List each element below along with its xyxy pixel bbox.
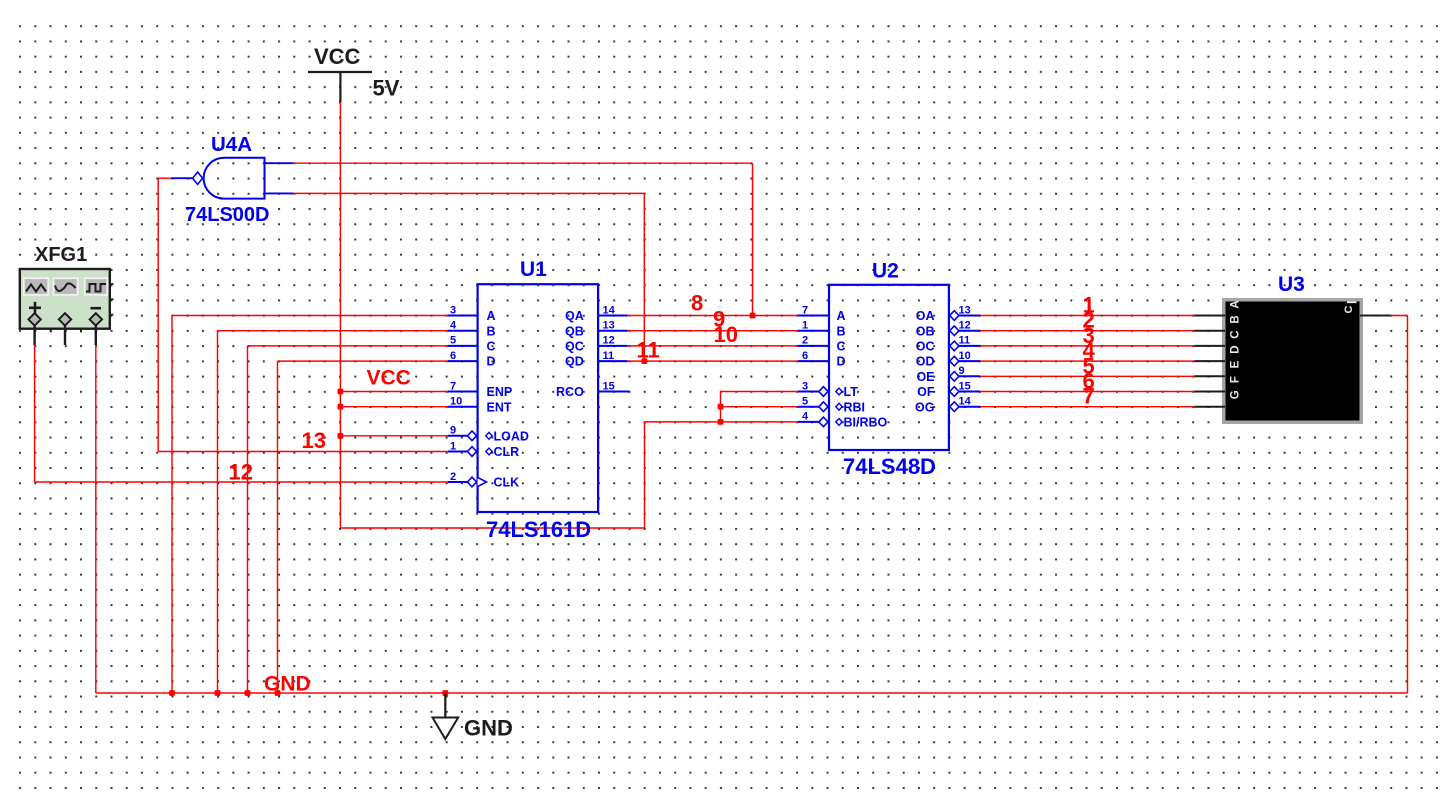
svg-text:14: 14 [603, 304, 616, 316]
svg-text:3: 3 [802, 380, 808, 392]
svg-text:2: 2 [450, 471, 456, 483]
svg-text:OD: OD [916, 355, 935, 369]
svg-text:13: 13 [959, 304, 971, 316]
svg-text:1: 1 [802, 320, 808, 332]
svg-text:11: 11 [603, 350, 615, 362]
svg-text:VCC: VCC [367, 367, 411, 390]
svg-text:ENP: ENP [487, 385, 513, 399]
svg-text:12: 12 [229, 459, 253, 484]
svg-text:CLK: CLK [494, 476, 520, 490]
svg-text:8: 8 [691, 291, 703, 316]
svg-text:15: 15 [603, 380, 615, 392]
svg-text:B: B [837, 324, 846, 338]
svg-text:XFG1: XFG1 [35, 244, 87, 266]
svg-text:QA: QA [565, 309, 584, 323]
svg-text:13: 13 [302, 428, 326, 453]
svg-text:4: 4 [802, 411, 809, 423]
svg-text:D: D [1230, 345, 1242, 353]
svg-text:U3: U3 [1278, 273, 1305, 296]
svg-text:OC: OC [916, 340, 935, 354]
svg-text:10: 10 [450, 396, 462, 408]
svg-text:12: 12 [959, 320, 971, 332]
svg-text:GND: GND [464, 716, 513, 741]
svg-text:74LS48D: 74LS48D [843, 454, 936, 479]
svg-text:6: 6 [802, 350, 808, 362]
svg-text:74LS00D: 74LS00D [185, 204, 270, 226]
svg-text:5V: 5V [373, 76, 400, 101]
svg-text:14: 14 [959, 396, 972, 408]
svg-text:QB: QB [565, 324, 584, 338]
svg-text:11: 11 [637, 337, 660, 362]
svg-text:10: 10 [714, 322, 738, 347]
svg-text:1: 1 [450, 440, 456, 452]
svg-text:15: 15 [959, 380, 971, 392]
svg-text:U1: U1 [520, 258, 547, 281]
svg-text:C: C [837, 340, 846, 354]
svg-text:5: 5 [802, 396, 808, 408]
svg-text:10: 10 [959, 350, 971, 362]
svg-text:U4A: U4A [211, 133, 252, 156]
svg-text:11: 11 [959, 335, 971, 347]
svg-text:OF: OF [917, 385, 935, 399]
svg-text:6: 6 [450, 350, 456, 362]
svg-text:OB: OB [916, 324, 935, 338]
svg-text:7: 7 [802, 304, 808, 316]
svg-text:2: 2 [802, 335, 808, 347]
svg-text:RCO: RCO [556, 385, 584, 399]
svg-text:OG: OG [915, 400, 934, 414]
svg-text:E: E [1230, 360, 1242, 368]
svg-text:G: G [1230, 390, 1242, 399]
svg-text:VCC: VCC [314, 44, 361, 69]
svg-text:LOAD: LOAD [494, 429, 529, 443]
svg-text:U2: U2 [872, 260, 899, 283]
svg-text:12: 12 [603, 335, 615, 347]
svg-text:9: 9 [450, 425, 456, 437]
svg-text:4: 4 [450, 320, 457, 332]
svg-text:3: 3 [450, 304, 456, 316]
svg-text:9: 9 [959, 365, 965, 377]
svg-text:7: 7 [450, 380, 456, 392]
svg-text:C: C [487, 340, 496, 354]
svg-text:GND: GND [264, 673, 311, 696]
svg-text:OA: OA [916, 309, 935, 323]
svg-text:RBI: RBI [844, 400, 866, 414]
svg-text:CLR: CLR [494, 445, 520, 459]
svg-text:OE: OE [916, 370, 934, 384]
svg-text:LT: LT [844, 385, 859, 399]
svg-text:74LS161D: 74LS161D [486, 517, 591, 542]
svg-text:D: D [837, 355, 846, 369]
svg-text:BI/RBO: BI/RBO [844, 416, 888, 430]
svg-text:QD: QD [565, 355, 584, 369]
svg-text:C: C [1343, 305, 1355, 313]
svg-text:B: B [1230, 315, 1242, 323]
svg-text:A: A [837, 309, 846, 323]
svg-text:7: 7 [1083, 384, 1095, 409]
svg-text:F: F [1230, 376, 1242, 383]
svg-text:D: D [487, 355, 496, 369]
svg-text:QC: QC [565, 340, 584, 354]
svg-text:ENT: ENT [487, 400, 512, 414]
svg-text:13: 13 [603, 320, 615, 332]
svg-text:C: C [1230, 330, 1242, 338]
svg-text:A: A [1230, 300, 1242, 308]
svg-text:B: B [487, 324, 496, 338]
svg-text:A: A [487, 309, 496, 323]
svg-text:5: 5 [450, 335, 456, 347]
